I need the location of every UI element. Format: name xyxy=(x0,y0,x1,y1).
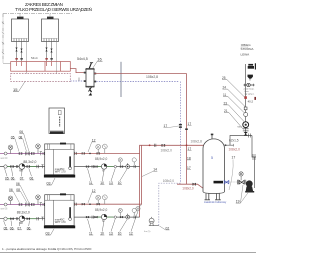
callout 16 xyxy=(93,57,103,69)
flange fitting row2 upper a xyxy=(16,165,18,168)
svg-text:4m (5): 4m (5) xyxy=(144,231,151,233)
flanges on main supply xyxy=(154,144,156,147)
callout 06 lower single xyxy=(16,182,29,203)
strainer row1 upper xyxy=(26,152,30,156)
unit2 row2 circle fitting xyxy=(114,216,116,218)
pump on assembly xyxy=(243,122,249,128)
air vent symbol top xyxy=(248,63,256,69)
pipe row2 lower xyxy=(0,218,45,220)
row1 lower end tee xyxy=(40,203,42,207)
tank heater bar xyxy=(214,181,224,184)
gauge P row1 lower xyxy=(8,196,13,205)
row1 upper circle fitting xyxy=(4,152,7,155)
unit2 row2 valve 1 xyxy=(86,216,89,218)
svg-text:88,9x2,0: 88,9x2,0 xyxy=(95,208,107,212)
svg-text:108x2,8: 108x2,8 xyxy=(146,75,158,79)
pipe: separator to right return (blue dashed) xyxy=(96,81,179,83)
svg-text:17: 17 xyxy=(232,156,236,160)
unit2 row2 valve 3 xyxy=(120,216,123,218)
pipe unit2 return right xyxy=(74,216,140,218)
callout 08 xyxy=(19,135,27,151)
unit1 row2 flange 2 xyxy=(134,165,135,168)
row2 lower circle fitting xyxy=(4,217,7,220)
gauge P unit1 row1 xyxy=(96,144,101,153)
svg-text:62x1,5: 62x1,5 xyxy=(229,138,239,142)
svg-text:WPT 170: WPT 170 xyxy=(55,220,66,224)
scope boundary left dash-dot line xyxy=(2,14,4,64)
svg-text:15: 15 xyxy=(13,87,18,92)
heater flange blue xyxy=(224,181,229,184)
svg-text:108x2,8: 108x2,8 xyxy=(191,139,203,143)
row1 lower circle fitting xyxy=(4,203,7,206)
boiler K2 flue line xyxy=(49,14,51,17)
svg-text:16: 16 xyxy=(97,57,102,62)
pipe: red riser down from supply xyxy=(186,74,188,185)
labels 17/18/17 on risers xyxy=(164,122,192,170)
strainer row1 lower xyxy=(26,203,30,207)
unit2 row2 flange 2 xyxy=(134,216,135,219)
svg-text:88,3x2,0: 88,3x2,0 xyxy=(17,210,30,214)
unit1 row1 valve xyxy=(82,152,85,154)
component with side arms xyxy=(244,83,255,93)
junction dots on main supply xyxy=(149,144,151,146)
flange bars below pump xyxy=(243,129,249,131)
svg-text:LEWA: LEWA xyxy=(241,53,251,57)
callout 17 right curve xyxy=(229,156,235,191)
pump M8 circuit1 xyxy=(19,164,25,173)
boiler K1 xyxy=(12,17,29,42)
gauge P unit2 row1 xyxy=(96,195,101,204)
unit2 row1 junction dot xyxy=(89,203,91,205)
dark symbol 2 xyxy=(247,75,252,79)
pipe unit1 return right xyxy=(74,166,140,168)
row2 lower end tee xyxy=(41,217,43,220)
row1 lower port flanges xyxy=(43,203,44,206)
buffer tank 5 xyxy=(203,134,225,194)
expansion vessel 02 xyxy=(149,217,159,226)
flanged valve xyxy=(237,180,246,185)
pipe tank right upper xyxy=(225,136,253,146)
svg-text:108x2,0: 108x2,0 xyxy=(229,148,241,152)
red riser A to unit2 return xyxy=(139,153,141,217)
unit1 row1 valve 2 xyxy=(97,152,100,154)
gauge T unit1 row1 xyxy=(102,144,107,153)
pump M unit2 return xyxy=(101,214,106,223)
valves row2 upper xyxy=(10,165,30,167)
pipe: blue return riser down xyxy=(179,82,181,184)
right edge dark red block xyxy=(254,97,256,100)
unit1 row1 junction dot xyxy=(89,153,91,155)
valve on main supply xyxy=(162,144,166,147)
pipe unit2 supply right (red) xyxy=(74,203,142,205)
hydraulic separator 16 xyxy=(84,63,96,96)
callouts 11 10 13 10 unit1 xyxy=(89,181,122,185)
pipe: header to separator (red supply) xyxy=(70,69,86,73)
unit1 row2 control valve xyxy=(126,163,130,168)
boiler K1 connection drops with valves xyxy=(17,42,27,75)
callout 02 xyxy=(160,226,170,230)
heat pump unit WPT2 xyxy=(44,193,75,228)
red riser B to unit2 supply xyxy=(141,145,143,204)
svg-text:STRONA: STRONA xyxy=(241,47,255,51)
callout 06 top xyxy=(19,130,29,152)
svg-text:6bar: 6bar xyxy=(245,91,249,93)
valves row1 upper xyxy=(19,152,35,154)
gauge T unit2 row1 xyxy=(102,195,107,204)
svg-text:108x2,0: 108x2,0 xyxy=(182,187,194,191)
svg-text:1 - pompa elektroniczna dolneg: 1 - pompa elektroniczna dolnego źródła Q… xyxy=(2,247,92,251)
pipe unit1 supply right (red) xyxy=(74,145,204,153)
unit1 row2 circle fitting xyxy=(114,165,116,167)
dark pump component right xyxy=(245,180,254,192)
bottom rule xyxy=(0,252,256,254)
svg-text:54x4,5: 54x4,5 xyxy=(77,57,88,61)
callout 05 xyxy=(11,135,19,151)
callout 15 xyxy=(13,82,25,93)
callout 19 xyxy=(236,185,248,204)
gauge T row1 lower xyxy=(36,195,41,205)
pipe row1 upper (brine supply, magenta) xyxy=(0,153,45,155)
callouts 11 10 13 10 unit2 xyxy=(89,232,133,236)
flange fitting row2 lower b xyxy=(37,217,39,220)
callout 12 unit1 xyxy=(88,138,96,152)
svg-text:wg wytycz.: wg wytycz. xyxy=(245,93,255,96)
red element on assembly xyxy=(244,96,247,99)
valve on lower red xyxy=(193,183,196,186)
gauge T row1 upper xyxy=(36,144,41,154)
valve at assembly bottom xyxy=(244,132,248,136)
svg-text:88,3x2,0: 88,3x2,0 xyxy=(23,160,36,164)
pipe: separator to right main supply (red) xyxy=(94,73,187,75)
return header collector (dashed box) xyxy=(11,74,71,82)
callout 03 unit1 xyxy=(47,178,56,186)
callouts 25 24 11 23 21 xyxy=(222,76,228,113)
svg-text:ww 00: ww 00 xyxy=(1,157,8,160)
gauge above xyxy=(239,172,243,180)
unit2 row2 control valve xyxy=(126,214,130,219)
scope line connector to header xyxy=(3,62,11,64)
right assembly vertical pipe xyxy=(245,64,247,136)
callout 14 xyxy=(142,168,157,177)
unit1 row2 valve 3 xyxy=(120,165,123,167)
gauge P row1 upper xyxy=(8,145,13,154)
unit2 row2 valve 2 xyxy=(94,216,97,218)
circle on assembly xyxy=(244,113,248,117)
boiler K1 flue line xyxy=(19,14,21,17)
svg-text:5: 5 xyxy=(211,156,213,160)
svg-text:WPT 170: WPT 170 xyxy=(55,169,66,173)
pipe: header to separator (blue return dashed) xyxy=(70,80,86,82)
svg-text:zasobnik buforowy: zasobnik buforowy xyxy=(204,200,227,204)
callout 12 unit2 xyxy=(88,189,96,203)
text OBIEG right top xyxy=(241,43,255,56)
tank legs xyxy=(205,193,221,200)
controller cabinet xyxy=(49,108,65,134)
flanges on line to right xyxy=(249,134,251,138)
svg-text:108x2,0: 108x2,0 xyxy=(163,179,175,183)
gauge unit1 row2 b xyxy=(132,158,136,165)
svg-text:108x2,0: 108x2,0 xyxy=(161,148,173,152)
gauge unit1 row2 a xyxy=(118,158,122,166)
gauge unit2 row2 b xyxy=(132,208,136,215)
pipe right edge down to pump xyxy=(254,157,256,188)
pump M unit1 return xyxy=(101,164,106,173)
callout 03 unit2 xyxy=(46,229,55,236)
svg-text:ww 06: ww 06 xyxy=(1,208,8,211)
pipe row2 upper (brine return) xyxy=(0,166,45,168)
unit1 row2 valve 2 xyxy=(94,165,97,167)
valves row2 lower xyxy=(10,218,30,220)
gauge unit2 row2 a xyxy=(118,208,122,216)
scope boundary right grey line xyxy=(120,62,122,97)
unit2 row2 flange 1 xyxy=(92,216,93,219)
boiler K2 connection drops with valves xyxy=(47,42,57,75)
row1 upper end tee xyxy=(40,152,42,156)
dashed line from heater valve xyxy=(229,181,237,183)
flange fitting row2 upper b xyxy=(37,165,39,168)
svg-text:TYLKO PRZEGLĄD I SERWIS URZĄDZ: TYLKO PRZEGLĄD I SERWIS URZĄDZEŃ xyxy=(15,6,92,12)
unit2 row1 port flanges xyxy=(75,203,76,206)
gauge on riser near unit2 xyxy=(136,205,142,211)
callouts 05 06 07 06 row2 lower xyxy=(4,226,31,230)
valves row1 lower xyxy=(19,203,35,205)
unit2 row1 valve 2 xyxy=(97,203,100,205)
svg-text:88,9x2,0: 88,9x2,0 xyxy=(95,157,107,161)
right edge pipe and flange xyxy=(252,136,256,158)
scope boundary top dash-dot line xyxy=(3,13,72,15)
pipe: dashed branch to expansion vessel xyxy=(159,183,181,225)
flange fitting row2 lower a xyxy=(16,217,18,220)
callout 06 lower xyxy=(9,188,20,203)
pipe lower red to tank xyxy=(177,184,204,188)
row2 upper end tee xyxy=(41,165,43,168)
svg-text:M8: M8 xyxy=(19,170,23,173)
callout 08 lower xyxy=(16,188,27,203)
row2 upper circle fitting xyxy=(4,165,7,168)
svg-text:MAG: MAG xyxy=(237,125,242,128)
unit1 row1 port flanges xyxy=(75,152,76,155)
pipe row1 lower (magenta) xyxy=(0,204,45,206)
anchor mark on red riser xyxy=(185,128,188,130)
callouts 05 06 07 06 row2 upper xyxy=(5,176,33,180)
heat pump unit WPT1 xyxy=(44,143,75,178)
boiler K2 xyxy=(42,17,59,42)
svg-text:40:2: 40:2 xyxy=(248,99,254,103)
svg-text:54x4: 54x4 xyxy=(31,56,38,60)
small box on assembly xyxy=(244,107,247,110)
anchor marks on blue riser xyxy=(179,124,182,126)
unit2 row1 valve xyxy=(82,203,85,205)
unit1 row2 valve 1 xyxy=(86,165,89,167)
row1 upper port flanges xyxy=(43,152,44,155)
pump M8 circuit2 xyxy=(19,216,25,225)
supply header collector (red box) xyxy=(11,62,71,72)
unit1 row2 flange 1 xyxy=(92,165,93,168)
leader 17 left to blue riser xyxy=(168,126,179,128)
